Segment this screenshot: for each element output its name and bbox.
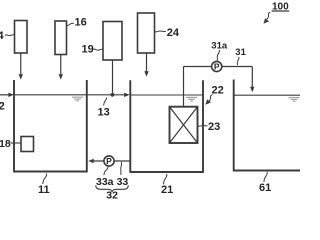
svg-text:23: 23 xyxy=(208,121,220,133)
svg-text:19: 19 xyxy=(82,44,94,56)
svg-text:22: 22 xyxy=(212,84,224,96)
leader for 11 xyxy=(43,174,47,185)
svg-text:33: 33 xyxy=(117,176,129,188)
svg-text:61: 61 xyxy=(259,182,271,194)
transfer line 13 (tank 11 to tank 21) xyxy=(87,94,126,96)
svg-text:P: P xyxy=(106,156,112,166)
svg-text:31: 31 xyxy=(235,47,246,58)
pump 33a xyxy=(104,156,114,166)
svg-text:24: 24 xyxy=(167,27,180,39)
leader for 61 xyxy=(264,172,267,182)
water level symbol tank 21 xyxy=(186,97,197,102)
svg-text:18: 18 xyxy=(0,138,11,150)
water level symbol tank 61 xyxy=(289,97,300,102)
wire from box 24 down to tank 21 xyxy=(146,53,148,72)
svg-text:13: 13 xyxy=(98,107,110,119)
tank 21 (membrane tank) xyxy=(129,80,204,172)
water line tank 61 xyxy=(234,94,300,96)
water line tank 11 xyxy=(14,94,87,96)
leader to box 19 xyxy=(93,49,103,50)
box 14 (feed unit, label cut at edge) xyxy=(15,21,28,54)
water line tank 21 xyxy=(130,94,203,96)
box 16 xyxy=(55,21,67,55)
membrane module 23 (crossed box) xyxy=(170,107,198,143)
leader to box 14 xyxy=(5,35,14,36)
box 19 xyxy=(103,22,122,61)
leader for 23 xyxy=(198,124,208,127)
svg-text:32: 32 xyxy=(106,190,118,200)
wire from box 19 down to junction on line 13 xyxy=(112,60,114,95)
leader to box 16 xyxy=(67,23,74,25)
svg-text:11: 11 xyxy=(38,184,50,196)
svg-text:16: 16 xyxy=(75,17,87,29)
pump 31a xyxy=(212,61,222,71)
box 18 (inside tank 11) xyxy=(21,137,34,152)
wire from box 14 down to tank 11 xyxy=(20,53,22,76)
svg-text:12: 12 xyxy=(0,101,5,113)
pipe 31 (horizontal) xyxy=(184,66,253,68)
leader arrow for 22 xyxy=(209,95,212,102)
svg-text:P: P xyxy=(214,62,220,72)
leader for 31 xyxy=(237,57,239,65)
leader for 33 xyxy=(120,162,123,175)
leader for 31a xyxy=(217,50,219,61)
water level symbol tank 11 xyxy=(72,97,83,102)
brace 32 xyxy=(96,185,129,192)
leader dash to box 18 xyxy=(10,142,21,144)
leader arrow for 100 xyxy=(267,12,271,19)
leader for 21 xyxy=(164,174,167,184)
box 24 xyxy=(138,13,155,53)
wire from box 16 down to tank 11 xyxy=(60,55,62,76)
svg-text:21: 21 xyxy=(161,184,173,196)
leader to box 24 xyxy=(155,31,166,32)
inflow wire (line 12) xyxy=(0,94,10,96)
leader for 13 xyxy=(104,98,107,106)
pipe 31 down into tank 61 xyxy=(251,67,253,89)
suction pipe from membrane 23 xyxy=(183,67,185,107)
junction dot xyxy=(111,93,115,97)
tank 11 (left tank) xyxy=(13,80,88,172)
leader for 33a xyxy=(104,167,108,175)
return line 33 (tank 21 to tank 11) xyxy=(93,160,131,162)
svg-text:33a: 33a xyxy=(96,176,114,188)
tank 61 (right tank) xyxy=(233,80,300,171)
